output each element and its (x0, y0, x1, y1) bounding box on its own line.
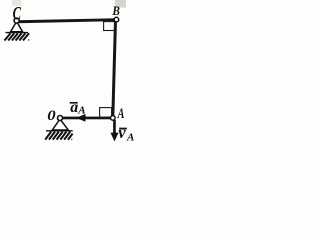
pin circle at B (114, 17, 119, 22)
bar B-A (vertical member) (111, 20, 117, 118)
hatching at C (5, 33, 30, 40)
support triangle at O (52, 119, 68, 130)
velocity arrow v_A (downward) (113, 120, 116, 134)
svg-text:A: A (77, 105, 85, 117)
speck near C ground (28, 39, 29, 40)
scan smudge above B (115, 0, 126, 8)
right-angle marker at B (104, 22, 115, 31)
svg-text:v: v (118, 123, 126, 142)
bar C-B (top horizontal member) (17, 18, 117, 23)
acceleration arrow a_A (leftward) head (76, 114, 86, 122)
bar O-A (link) (60, 117, 113, 120)
pin circle at C (14, 18, 19, 23)
support triangle at C (11, 22, 23, 32)
svg-text:B: B (111, 4, 120, 19)
svg-text:a: a (70, 99, 78, 116)
ground line at C (6, 32, 29, 34)
right-angle marker at A (100, 108, 112, 118)
svg-text:0: 0 (47, 108, 55, 124)
scan smudge above C (12, 0, 22, 6)
background paper (0, 0, 150, 150)
ground line at O (46, 130, 73, 132)
svg-text:C: C (13, 4, 22, 24)
hatching at O (45, 132, 72, 140)
pin circle at O (58, 116, 63, 121)
svg-text:A: A (117, 105, 125, 121)
pin circle at A (111, 116, 116, 121)
speck near O ground (71, 139, 72, 140)
svg-text:A: A (126, 132, 134, 144)
